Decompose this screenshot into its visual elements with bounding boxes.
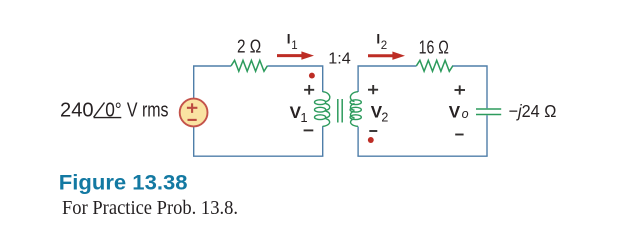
svg-text:For Practice Prob. 13.8.: For Practice Prob. 13.8.: [62, 197, 238, 219]
wire capacitor bottom: [486, 115, 488, 156]
svg-text:0°: 0°: [105, 99, 122, 121]
V2 minus: [369, 130, 377, 132]
wire R1 to primary winding top: [267, 66, 322, 92]
svg-text:I: I: [287, 31, 291, 46]
resistor R 2ohm: [231, 60, 267, 71]
angle symbol: [94, 103, 122, 118]
svg-text:V: V: [449, 102, 461, 121]
capacitor C: [476, 109, 501, 115]
svg-text:o: o: [462, 107, 469, 121]
Vo minus: [455, 134, 463, 136]
V2 plus: [368, 85, 378, 94]
svg-text:−j24 Ω: −j24 Ω: [509, 101, 557, 121]
svg-text:2: 2: [381, 111, 388, 125]
V1 plus: [304, 85, 314, 95]
V1 minus: [304, 129, 314, 131]
wire top-left: source to R1: [194, 66, 232, 99]
svg-text:1: 1: [300, 110, 307, 125]
dot primary: [309, 73, 315, 79]
source polarity marks: [187, 103, 198, 120]
resistor R 16ohm: [416, 60, 452, 71]
wire left below source: [193, 126, 195, 155]
transformer secondary coil L2: [350, 92, 361, 127]
Vo plus: [455, 85, 466, 94]
wire secondary winding bottom: [357, 127, 359, 157]
transformer primary coil L1: [315, 92, 330, 127]
current arrow I2: [368, 52, 405, 60]
svg-text:2: 2: [381, 40, 387, 52]
wire bottom of secondary loop: [357, 155, 487, 157]
svg-text:V rms: V rms: [127, 99, 169, 121]
wire secondary winding top to R2: [358, 66, 416, 92]
current arrow I1: [277, 51, 314, 59]
svg-text:16 Ω: 16 Ω: [419, 37, 449, 57]
dot secondary: [368, 137, 374, 143]
voltage source Vs: [180, 99, 208, 127]
wire R2 to capacitor top: [452, 66, 487, 108]
wire bottom of primary loop: [193, 155, 323, 157]
svg-text:1:4: 1:4: [328, 50, 351, 67]
svg-text:1: 1: [291, 40, 297, 52]
svg-text:I: I: [376, 32, 380, 47]
wire primary winding bottom: [322, 126, 324, 156]
svg-text:Figure 13.38: Figure 13.38: [59, 171, 188, 194]
svg-text:240: 240: [60, 99, 94, 121]
svg-text:2 Ω: 2 Ω: [237, 37, 261, 57]
transformer core: [338, 99, 342, 123]
